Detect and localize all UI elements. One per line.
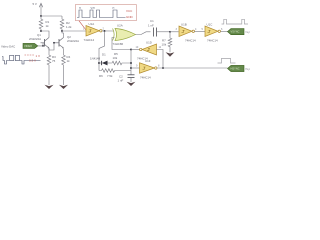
svg-text:74HC14: 74HC14 (140, 76, 151, 80)
resistor R4 (62, 49, 66, 69)
node VCC junction (40, 15, 42, 17)
wire video input to Q1 base (38, 43, 45, 46)
resistor R3 (47, 49, 51, 69)
annotation vsync pulse waveform (222, 19, 249, 24)
ground under R7 (166, 52, 175, 57)
svg-text:Vsync: Vsync (245, 31, 250, 34)
svg-text:C1: C1 (150, 19, 154, 23)
svg-text:H: H (79, 7, 81, 10)
svg-text:U1A: U1A (89, 22, 95, 26)
svg-text:V/H: V/H (91, 7, 95, 10)
annotation video waveform (2, 56, 41, 65)
inverter U1C (205, 26, 221, 37)
svg-text:1 V: 1 V (36, 54, 41, 58)
node feedback right top (130, 49, 132, 51)
wire R1 to Q1 collector (41, 31, 49, 38)
node gate B input tap (130, 67, 132, 69)
svg-text:0.3 V: 0.3 V (29, 58, 36, 62)
annotation 1V level (25, 54, 35, 56)
annotation hsync pulse waveform (218, 58, 236, 63)
resistor R7 (168, 32, 172, 52)
node Q1 emitter / Q2 base (53, 42, 55, 44)
annotation leader line (79, 21, 86, 30)
resistor R5 (111, 61, 132, 65)
annotation sync waveform box (75, 5, 136, 21)
wire Q2 collector to R2 (62, 31, 64, 38)
svg-text:GND: GND (126, 15, 134, 19)
capacitor C1 (154, 28, 157, 37)
svg-text:VCC: VCC (126, 9, 133, 13)
wire U1D input from right (157, 50, 164, 69)
svg-text:10k: 10k (162, 43, 167, 47)
svg-text:U1F: U1F (145, 59, 151, 63)
ground under R4 (59, 85, 68, 89)
node video input junction (42, 45, 44, 47)
svg-text:U1D: U1D (146, 41, 152, 45)
svg-text:74HC14: 74HC14 (185, 39, 196, 43)
svg-text:HSYNC: HSYNC (231, 67, 240, 71)
diode D1 (99, 61, 111, 66)
xor U2A (113, 29, 136, 41)
node R2 junction (61, 30, 63, 32)
svg-text:2N2222A: 2N2222A (67, 39, 79, 43)
svg-text:7.5k: 7.5k (107, 74, 113, 78)
svg-text:74HC14: 74HC14 (207, 39, 218, 43)
svg-text:2N2222A: 2N2222A (29, 37, 41, 41)
svg-text:75: 75 (52, 59, 56, 63)
wire U1E output to Hsync port (157, 67, 228, 69)
svg-text:1.2k: 1.2k (66, 25, 72, 29)
svg-text:H: H (113, 7, 115, 10)
wire R3 to ground (48, 68, 50, 85)
svg-text:1 nF: 1 nF (118, 79, 124, 83)
annotation sync waveform (77, 10, 126, 18)
node U1A output (104, 30, 106, 32)
svg-text:74HC86: 74HC86 (113, 42, 124, 46)
inverter U1E (140, 63, 158, 73)
wire node to U1E input (131, 67, 140, 69)
wire node to U1A input (62, 30, 87, 32)
node C1 R7 junction (169, 31, 171, 33)
inverter U1D (feedback, points left) (140, 44, 157, 55)
svg-text:10k: 10k (113, 56, 118, 60)
svg-text:U1C: U1C (207, 23, 213, 27)
svg-text:74HC14: 74HC14 (84, 38, 95, 42)
svg-text:Video DAC: Video DAC (1, 45, 15, 49)
svg-text:R6: R6 (99, 74, 103, 78)
wire 5V rail (41, 15, 62, 17)
wire U1B to U1C (195, 30, 206, 32)
resistor R2 (60, 16, 64, 31)
transistor Q1 (41, 38, 50, 49)
ground under C2 (127, 82, 136, 86)
wire junction to U1B (170, 31, 179, 33)
svg-text:VSYNC: VSYNC (231, 30, 240, 34)
wire Q1 emitter to Q2 base (49, 43, 54, 50)
svg-text:VIDEO: VIDEO (24, 44, 32, 48)
wire U1A output down to D1 network (99, 31, 105, 71)
svg-text:1N4148: 1N4148 (90, 57, 101, 61)
svg-text:U2A: U2A (117, 24, 123, 28)
node D1 R5 right (130, 62, 132, 64)
transistor Q2 (54, 38, 64, 49)
ground under R3 (45, 85, 54, 89)
resistor R1 (39, 16, 43, 31)
svg-text:Hsync: Hsync (245, 68, 250, 71)
svg-text:1 nF: 1 nF (148, 24, 154, 28)
inverter U1B (179, 26, 195, 37)
inverter U1A (86, 26, 102, 37)
node U1E output (162, 67, 164, 69)
svg-text:U1B: U1B (181, 23, 187, 27)
wire U2A lower input (112, 38, 131, 50)
wire R4 to ground (63, 68, 65, 85)
resistor R6 (99, 69, 131, 73)
wire right node vertical (130, 50, 132, 75)
port Vsync output tag (228, 29, 245, 35)
wire U1A out (102, 30, 114, 32)
port Hsync output tag (228, 65, 245, 71)
capacitor C2 (128, 75, 135, 78)
wire U1D output to node (131, 49, 140, 51)
node D1 left (98, 62, 100, 64)
wire U2A out (136, 32, 151, 35)
svg-text:D1: D1 (102, 53, 106, 57)
wire U1C to Vsync port (221, 30, 228, 32)
power +5V (39, 3, 43, 16)
node R1 collector junction (40, 30, 42, 32)
svg-text:5 V: 5 V (33, 2, 37, 6)
